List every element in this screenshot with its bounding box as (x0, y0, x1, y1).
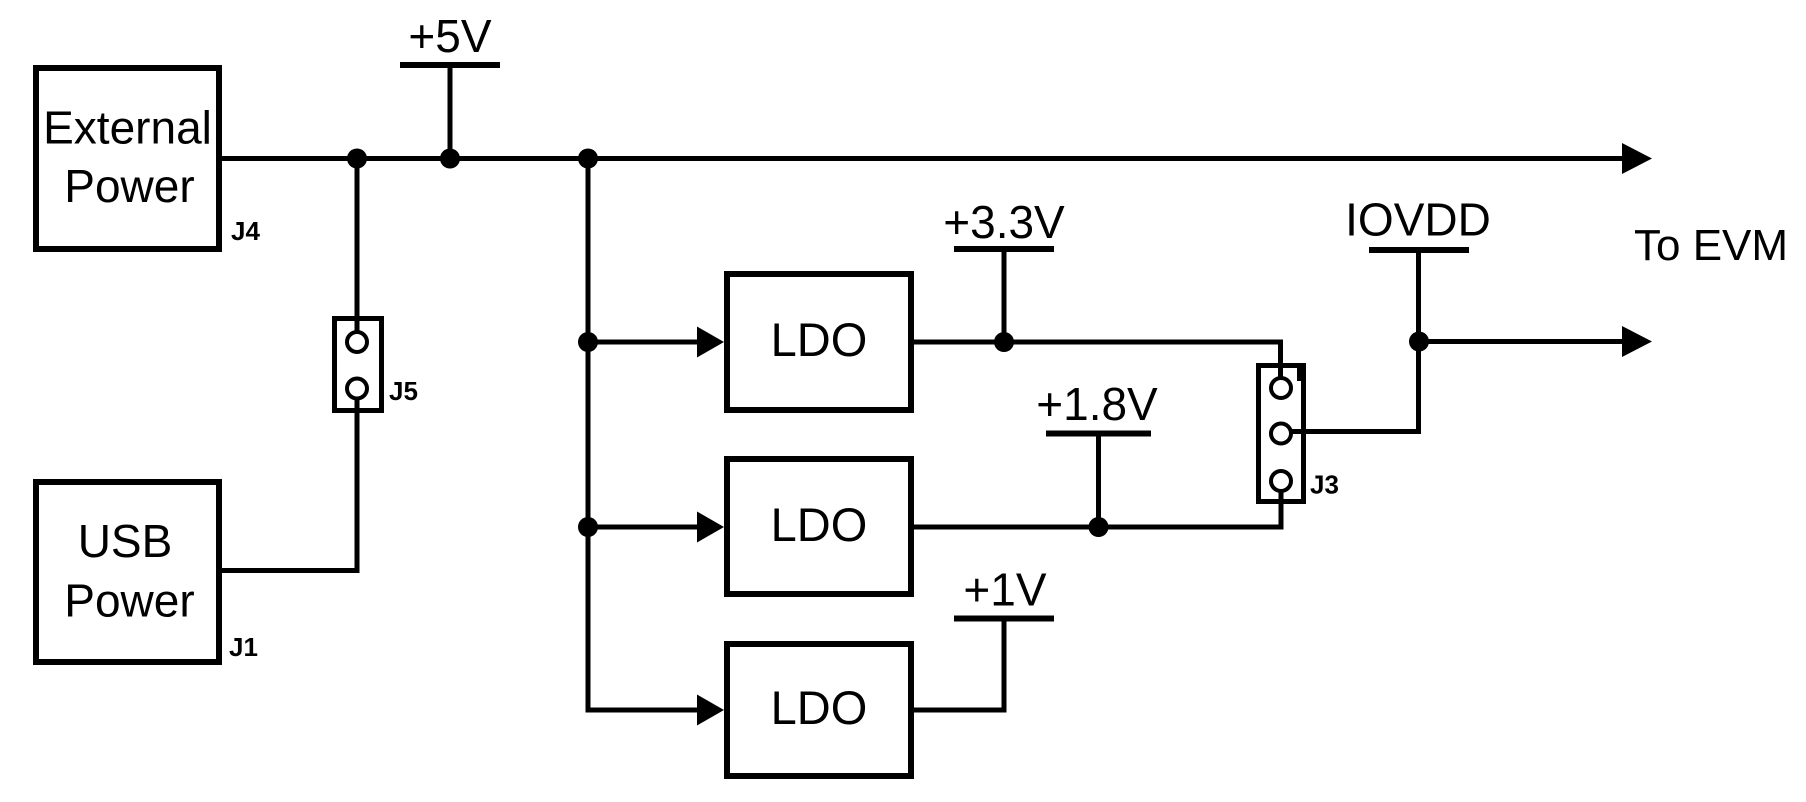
svg-text:J4: J4 (231, 216, 260, 246)
junction IOVDD rail / EVM wire (1409, 332, 1429, 352)
wire LDO3 output to +1V rail (914, 620, 1004, 710)
arrow into LDO2 (697, 512, 724, 543)
junction trunk / LDO2 feed (578, 517, 598, 537)
svg-text:J3: J3 (1310, 470, 1339, 500)
junction LDO1 output / +3.3V rail (994, 332, 1014, 352)
arrow main bus to EVM (1622, 143, 1652, 174)
wire feed to LDO1 (588, 340, 701, 345)
regulator LDO U1 (+3.3V) (727, 274, 911, 410)
regulator LDO U2 (+1.8V) (727, 459, 911, 594)
svg-text:To EVM: To EVM (1634, 221, 1788, 270)
wire LDO1 output to J3 pin1 (914, 342, 1281, 388)
svg-text:+1V: +1V (963, 564, 1046, 616)
svg-text:J1: J1 (229, 632, 258, 662)
svg-text:USB: USB (78, 515, 173, 567)
wire IOVDD to EVM (1419, 339, 1624, 344)
power rail IOVDD and wire from J3 pin2 (1281, 194, 1491, 432)
junction bus / +5V rail (440, 149, 460, 169)
wire bus to J5 pin1 (355, 159, 360, 343)
wire feed to LDO2 (588, 525, 701, 530)
wire trunk from bus down to LDO3 feed (588, 159, 701, 711)
svg-text:LDO: LDO (771, 681, 868, 734)
power rail +5V (400, 10, 500, 159)
connector J4 External Power box (36, 68, 219, 249)
junction bus / J5 branch (347, 149, 367, 169)
svg-text:LDO: LDO (771, 313, 868, 366)
svg-text:LDO: LDO (771, 498, 868, 551)
wire J5 pin2 to USB Power (222, 389, 357, 571)
power rail +1V (954, 564, 1054, 619)
jumper J5 (335, 319, 382, 411)
junction LDO2 output / +1.8V rail (1089, 517, 1109, 537)
jumper J3 (1259, 364, 1307, 502)
svg-text:J5: J5 (389, 376, 418, 406)
power rail +3.3V (943, 196, 1065, 342)
regulator LDO U3 (+1V) (727, 644, 911, 776)
svg-text:+1.8V: +1.8V (1036, 378, 1158, 430)
connector J1 USB Power box (36, 482, 219, 662)
arrow into LDO3 (697, 695, 724, 726)
junction trunk / LDO1 feed (578, 332, 598, 352)
arrow into LDO1 (697, 327, 724, 358)
arrow IOVDD to EVM (1622, 326, 1652, 357)
power rail +1.8V (1036, 378, 1158, 527)
wire LDO2 output to J3 pin3 (914, 481, 1281, 527)
wire main +5V bus (222, 156, 1624, 161)
svg-text:+5V: +5V (408, 10, 491, 62)
svg-text:Power: Power (64, 160, 194, 212)
svg-text:IOVDD: IOVDD (1345, 194, 1491, 246)
junction bus / trunk (578, 149, 598, 169)
svg-text:Power: Power (64, 575, 194, 627)
svg-text:+3.3V: +3.3V (943, 196, 1065, 248)
svg-text:External: External (43, 102, 212, 154)
